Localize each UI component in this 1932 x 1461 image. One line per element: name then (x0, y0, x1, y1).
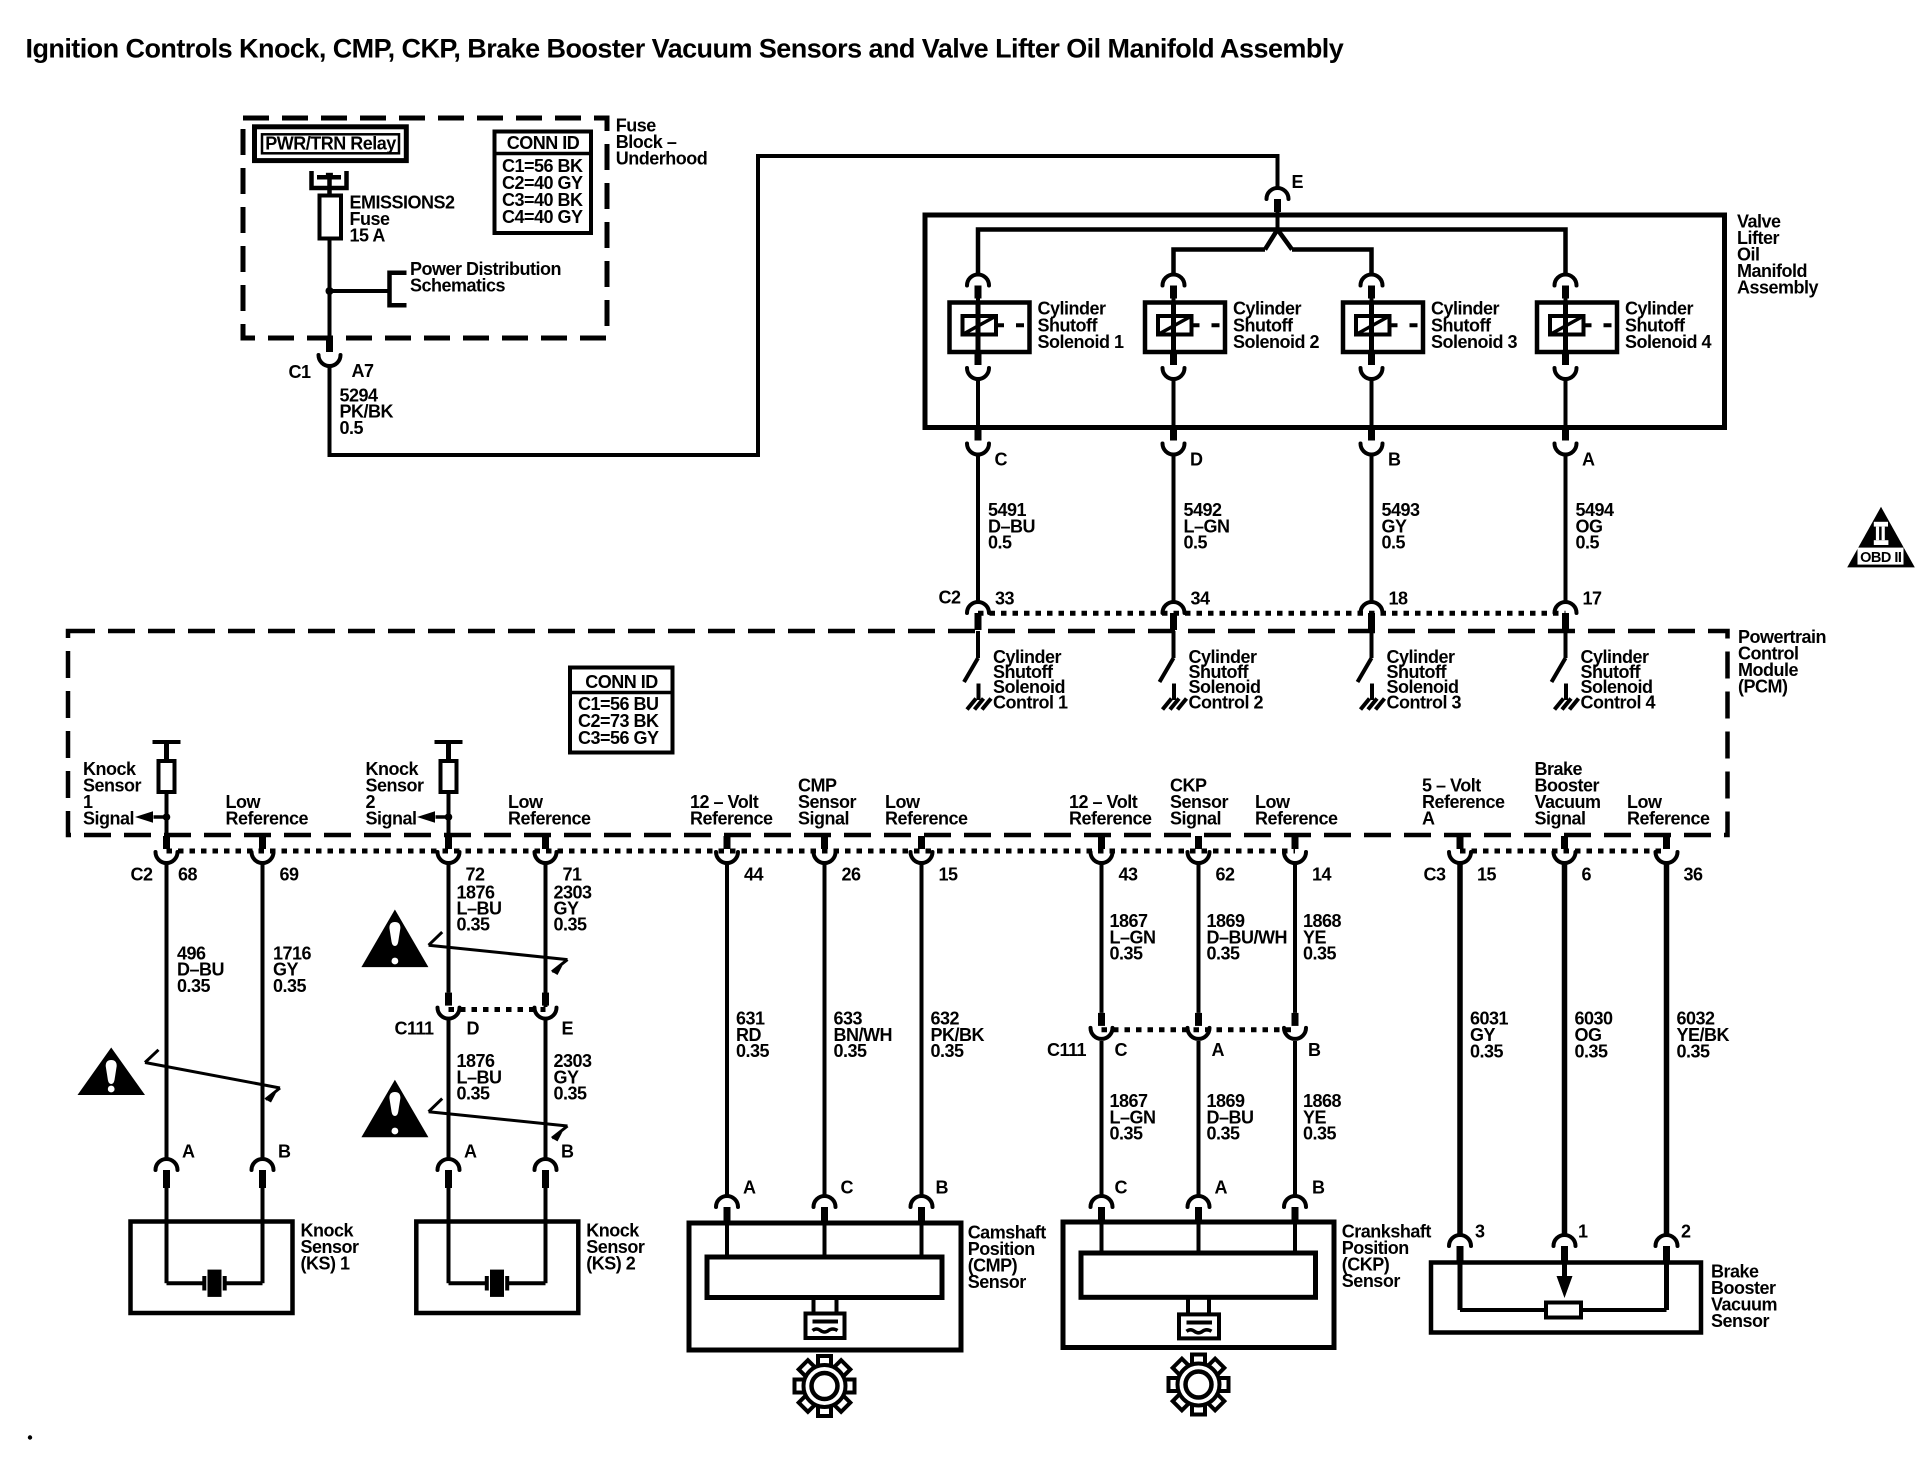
svg-text:Reference: Reference (1627, 809, 1710, 829)
connector PCM pin 17 (1555, 602, 1577, 630)
wire branch solenoid 2 (1174, 250, 1266, 275)
svg-text:0.35: 0.35 (273, 976, 307, 996)
svg-text:Reference: Reference (1069, 809, 1152, 829)
connector solenoid 3 bottom pin (1361, 352, 1383, 428)
svg-text:0.35: 0.35 (1207, 944, 1241, 964)
warning triangle knock sensor 1 (78, 1048, 146, 1096)
wire junction to power distribution tab (330, 289, 390, 293)
svg-text:0.35: 0.35 (1677, 1041, 1711, 1061)
connector PCM bottom pin 26 (814, 836, 836, 863)
svg-text:43: 43 (1119, 865, 1139, 885)
crankshaft position sensor pins (1091, 1196, 1113, 1223)
connector solenoid 4 top pin (1555, 275, 1577, 303)
knock sensor 2 internal pullup (435, 742, 463, 836)
fuse EMISSIONS2 15A symbol (320, 196, 342, 239)
svg-text:0.35: 0.35 (1110, 1124, 1144, 1144)
svg-text:A: A (1422, 809, 1435, 829)
svg-text:0.35: 0.35 (736, 1041, 770, 1061)
svg-text:Signal: Signal (1170, 809, 1221, 829)
svg-text:36: 36 (1684, 865, 1704, 885)
svg-text:Reference: Reference (885, 809, 968, 829)
svg-text:C4=40 GY: C4=40 GY (502, 207, 583, 227)
wire 2303 knock sensor 2 low reference upper (544, 863, 548, 1007)
svg-text:Underhood: Underhood (616, 148, 708, 168)
svg-text:0.5: 0.5 (1184, 533, 1208, 553)
svg-text:C1: C1 (288, 362, 310, 382)
svg-text:C: C (995, 450, 1008, 470)
connector C111 ckp pin A (1188, 1013, 1210, 1039)
svg-text:A: A (1215, 1178, 1228, 1198)
svg-text:C3=56 GY: C3=56 GY (578, 728, 659, 748)
cmp sensor connector element (806, 1298, 845, 1339)
connector PCM bottom pin 14 (1284, 836, 1306, 863)
svg-text:0.35: 0.35 (554, 915, 588, 935)
connector knock sensor 1 pin A (156, 1159, 178, 1222)
wire 1867 ckp upper (1100, 863, 1104, 1013)
svg-text:A: A (182, 1142, 195, 1162)
warning triangle knock sensor 2 lower (361, 1080, 428, 1138)
connector PCM bottom pin 71 (535, 836, 557, 863)
svg-text:C2: C2 (130, 865, 152, 885)
svg-text:OBD II: OBD II (1860, 550, 1902, 566)
gear symbol ckp (1169, 1355, 1229, 1415)
ground solenoid control 1 (967, 699, 991, 710)
svg-text:Sensor: Sensor (1711, 1311, 1770, 1331)
wire 1868 ckp lower (1293, 1041, 1297, 1196)
wire branch solenoid 3 (1292, 250, 1372, 275)
connector valve lifter manifold pin B (1361, 428, 1383, 603)
wire 632 cmp (920, 863, 924, 1196)
svg-text:0.35: 0.35 (1303, 944, 1337, 964)
connector solenoid 4 bottom pin (1555, 352, 1577, 428)
connector solenoid 1 top pin (967, 275, 989, 303)
connector knock sensor 1 pin B (252, 1159, 274, 1222)
connector PCM bottom pin 6 (1554, 836, 1576, 863)
svg-text:Reference: Reference (508, 809, 591, 829)
connector PCM bottom pin 69 (252, 836, 274, 863)
svg-text:Control 4: Control 4 (1581, 692, 1656, 712)
svg-text:Sensor: Sensor (1342, 1271, 1401, 1291)
svg-text:0.35: 0.35 (834, 1041, 868, 1061)
OBD II triangle symbol (1847, 507, 1915, 568)
knock sensor 1 piezo element (167, 1222, 263, 1297)
svg-text:0.35: 0.35 (1207, 1124, 1241, 1144)
connector solenoid 1 bottom pin (967, 352, 989, 428)
camshaft position sensor pins (716, 1196, 738, 1223)
svg-text:14: 14 (1312, 865, 1332, 885)
connector PCM bottom pin 15 (1449, 836, 1471, 863)
conn id table fuse block (495, 132, 592, 234)
svg-text:Assembly: Assembly (1737, 278, 1819, 298)
connector valve lifter manifold pin A (1555, 428, 1577, 603)
svg-text:(KS) 2: (KS) 2 (586, 1254, 635, 1274)
svg-text:B: B (1308, 1040, 1321, 1060)
svg-text:Signal: Signal (1535, 809, 1586, 829)
svg-text:Signal: Signal (366, 809, 417, 829)
ground solenoid control 4 (1555, 699, 1579, 710)
wire 6030 brake booster (1562, 863, 1568, 1235)
svg-text:0.35: 0.35 (177, 976, 211, 996)
svg-text:Schematics: Schematics (410, 276, 506, 296)
signal arrow knock sensor 2 (417, 811, 449, 822)
svg-text:C3: C3 (1423, 865, 1445, 885)
svg-text:Control 1: Control 1 (993, 692, 1068, 712)
connector solenoid 2 bottom pin (1163, 352, 1185, 428)
svg-text:Control 3: Control 3 (1387, 692, 1462, 712)
connector valve lifter manifold pin D (1163, 428, 1185, 603)
svg-text:Sensor: Sensor (968, 1272, 1027, 1292)
svg-text:A7: A7 (352, 361, 374, 381)
solenoid driver switch 2 (1160, 631, 1175, 700)
connector C1 pin A7 (319, 339, 341, 366)
svg-text:E: E (1292, 172, 1304, 192)
connector knock sensor 2 pin A (438, 1159, 460, 1222)
svg-text:1: 1 (1578, 1222, 1588, 1242)
note arrow knock sensor 2 wires upper (429, 932, 568, 975)
solenoid driver switch 1 (964, 631, 979, 700)
connector solenoid 3 top pin (1361, 275, 1383, 303)
connector PCM pin 33 (967, 602, 989, 630)
svg-text:C: C (1115, 1040, 1128, 1060)
fuse block underhood dashed box (243, 118, 607, 338)
svg-text:Signal: Signal (83, 809, 134, 829)
svg-text:Solenoid 2: Solenoid 2 (1233, 332, 1320, 352)
wire 6032 brake booster (1664, 863, 1670, 1235)
connector PCM bottom pin 68 (156, 836, 178, 863)
svg-text:Signal: Signal (798, 809, 849, 829)
connector PCM bottom pin 62 (1188, 836, 1210, 863)
svg-text:0.35: 0.35 (931, 1041, 965, 1061)
cylinder shutoff solenoid 3 (1343, 303, 1423, 353)
svg-text:E: E (562, 1019, 574, 1039)
relay contact symbol (312, 171, 347, 196)
ground solenoid control 2 (1163, 699, 1187, 710)
cylinder shutoff solenoid 4 (1537, 303, 1617, 353)
solenoid driver switch 3 (1358, 631, 1373, 700)
dotted connector line C111 ckp (1102, 1027, 1296, 1032)
svg-text:C: C (841, 1178, 854, 1198)
svg-text:33: 33 (995, 589, 1015, 609)
svg-text:69: 69 (280, 865, 300, 885)
svg-text:Ignition Controls Knock, CMP,: Ignition Controls Knock, CMP, CKP, Brake… (26, 34, 1344, 64)
connector PCM bottom pin 36 (1656, 836, 1678, 863)
svg-text:0.5: 0.5 (1382, 533, 1406, 553)
knock sensor 1 internal pullup (153, 742, 181, 836)
svg-text:B: B (1312, 1178, 1325, 1198)
wire 631 cmp (725, 863, 729, 1196)
wire branch solenoid 1 and 4 (978, 230, 1566, 275)
brake booster vacuum sensor box (1431, 1263, 1701, 1333)
svg-text:0.35: 0.35 (1470, 1041, 1504, 1061)
brake booster potentiometer (1460, 1263, 1667, 1318)
svg-text:0.35: 0.35 (554, 1084, 588, 1104)
page dot (28, 1435, 32, 1439)
connector solenoid 2 top pin (1163, 275, 1185, 303)
svg-text:(KS) 1: (KS) 1 (301, 1254, 350, 1274)
relay PWR/TRN Relay box (255, 127, 407, 161)
svg-text:0.35: 0.35 (1110, 944, 1144, 964)
svg-text:15: 15 (1477, 865, 1497, 885)
connector PCM bottom pin 72 (438, 836, 460, 863)
svg-text:B: B (278, 1142, 291, 1162)
svg-text:Solenoid 3: Solenoid 3 (1431, 332, 1518, 352)
wire 1716 knock sensor 1 low reference (261, 863, 265, 1159)
connector valve lifter manifold pin C (967, 428, 989, 603)
svg-text:17: 17 (1583, 589, 1603, 609)
dotted connector line C111 knock (449, 1007, 546, 1012)
svg-text:34: 34 (1191, 589, 1211, 609)
connector PCM bottom pin 15 (911, 836, 933, 863)
brake booster sensor pins (1449, 1235, 1471, 1263)
crankshaft position CKP sensor box (1063, 1222, 1334, 1348)
svg-text:(PCM): (PCM) (1738, 677, 1788, 697)
svg-text:18: 18 (1389, 589, 1409, 609)
svg-text:D: D (467, 1019, 480, 1039)
svg-text:CONN ID: CONN ID (507, 133, 580, 153)
connector C111 pin D (438, 993, 460, 1019)
connector E into valve lifter oil manifold (1267, 188, 1289, 231)
knock sensor 2 piezo element (449, 1222, 546, 1297)
svg-text:A: A (743, 1178, 756, 1198)
svg-text:0.35: 0.35 (457, 915, 491, 935)
knock sensor KS 1 box (131, 1222, 293, 1314)
off-page connector power distribution (390, 273, 407, 305)
junction dot (326, 287, 334, 295)
svg-text:0.35: 0.35 (457, 1084, 491, 1104)
svg-text:2: 2 (1681, 1222, 1691, 1242)
ckp sensor connector element (1179, 1297, 1219, 1338)
wire 1876 knock sensor 2 signal upper (447, 863, 451, 993)
svg-text:B: B (1388, 450, 1401, 470)
svg-text:0.5: 0.5 (1576, 533, 1600, 553)
wire 1868 ckp upper (1293, 863, 1297, 1013)
conn id table PCM (570, 668, 673, 753)
wire 5294 route to valve lifter assembly (330, 156, 1278, 455)
wire 1869 ckp upper (1197, 863, 1201, 1013)
note arrow knock sensor 2 wires lower (429, 1099, 568, 1142)
valve lifter oil manifold assembly box (925, 215, 1725, 428)
wire V split to inner branch (1265, 230, 1292, 250)
connector PCM pin 18 (1361, 602, 1383, 630)
svg-text:PWR/TRN Relay: PWR/TRN Relay (265, 134, 396, 154)
svg-text:B: B (561, 1142, 574, 1162)
svg-text:Reference: Reference (226, 809, 309, 829)
dotted connector line C2 bottom (167, 849, 1296, 854)
svg-text:CONN ID: CONN ID (585, 672, 658, 692)
connector C111 pin E (535, 993, 557, 1019)
connector C111 ckp pin B (1284, 1013, 1306, 1039)
wire fuse to junction (328, 239, 332, 292)
wire 496 knock sensor 1 signal (165, 863, 169, 1159)
svg-text:Solenoid 1: Solenoid 1 (1038, 332, 1125, 352)
svg-text:A: A (464, 1142, 477, 1162)
svg-text:Solenoid 4: Solenoid 4 (1625, 332, 1712, 352)
wire 1867 ckp lower (1100, 1041, 1104, 1196)
svg-text:Reference: Reference (690, 809, 773, 829)
wire 6031 brake booster (1457, 863, 1463, 1235)
knock sensor KS 2 box (416, 1222, 578, 1314)
dotted connector line C3 bottom (1460, 849, 1667, 854)
svg-text:Control 2: Control 2 (1189, 692, 1264, 712)
camshaft position CMP sensor box (689, 1223, 961, 1350)
svg-text:68: 68 (178, 865, 198, 885)
svg-text:C111: C111 (1047, 1040, 1087, 1060)
svg-text:62: 62 (1216, 865, 1236, 885)
svg-text:26: 26 (842, 865, 862, 885)
gear symbol cmp (795, 1356, 855, 1416)
svg-text:D: D (1190, 450, 1203, 470)
svg-text:C: C (1115, 1178, 1128, 1198)
svg-text:3: 3 (1475, 1222, 1485, 1242)
svg-text:0.35: 0.35 (1303, 1124, 1337, 1144)
solenoid driver switch 4 (1552, 631, 1567, 700)
wire junction down to C1 connector (328, 291, 332, 339)
svg-text:Reference: Reference (1255, 809, 1338, 829)
wire 1869 ckp lower (1197, 1041, 1201, 1196)
svg-text:0.35: 0.35 (1575, 1041, 1609, 1061)
connector knock sensor 2 pin B (535, 1159, 557, 1222)
dotted connector line C2 top (978, 611, 1566, 616)
svg-text:44: 44 (744, 865, 764, 885)
connector PCM bottom pin 43 (1091, 836, 1113, 863)
connector PCM pin 34 (1163, 602, 1185, 630)
svg-text:0.5: 0.5 (988, 533, 1012, 553)
wire 2303 knock sensor 2 low reference lower (544, 1019, 548, 1159)
cylinder shutoff solenoid 1 (950, 303, 1030, 353)
svg-text:C2: C2 (938, 588, 960, 608)
svg-text:C111: C111 (394, 1019, 434, 1039)
signal arrow knock sensor 1 (135, 811, 167, 822)
svg-text:15: 15 (939, 865, 959, 885)
connector C111 ckp pin C (1091, 1013, 1113, 1039)
svg-text:15 A: 15 A (350, 225, 386, 245)
connector PCM bottom pin 44 (716, 836, 738, 863)
warning triangle knock sensor 2 upper (361, 910, 428, 968)
svg-text:A: A (1212, 1040, 1225, 1060)
svg-text:0.5: 0.5 (340, 418, 364, 438)
svg-text:A: A (1582, 450, 1595, 470)
svg-text:B: B (936, 1178, 949, 1198)
svg-text:6: 6 (1582, 865, 1592, 885)
cylinder shutoff solenoid 2 (1145, 303, 1225, 353)
note arrow knock sensor 1 wires (145, 1050, 280, 1103)
ground solenoid control 3 (1361, 699, 1385, 710)
wire 633 cmp (823, 863, 827, 1196)
wire 1876 knock sensor 2 signal lower (447, 1019, 451, 1159)
powertrain control module dashed box (68, 631, 1728, 835)
